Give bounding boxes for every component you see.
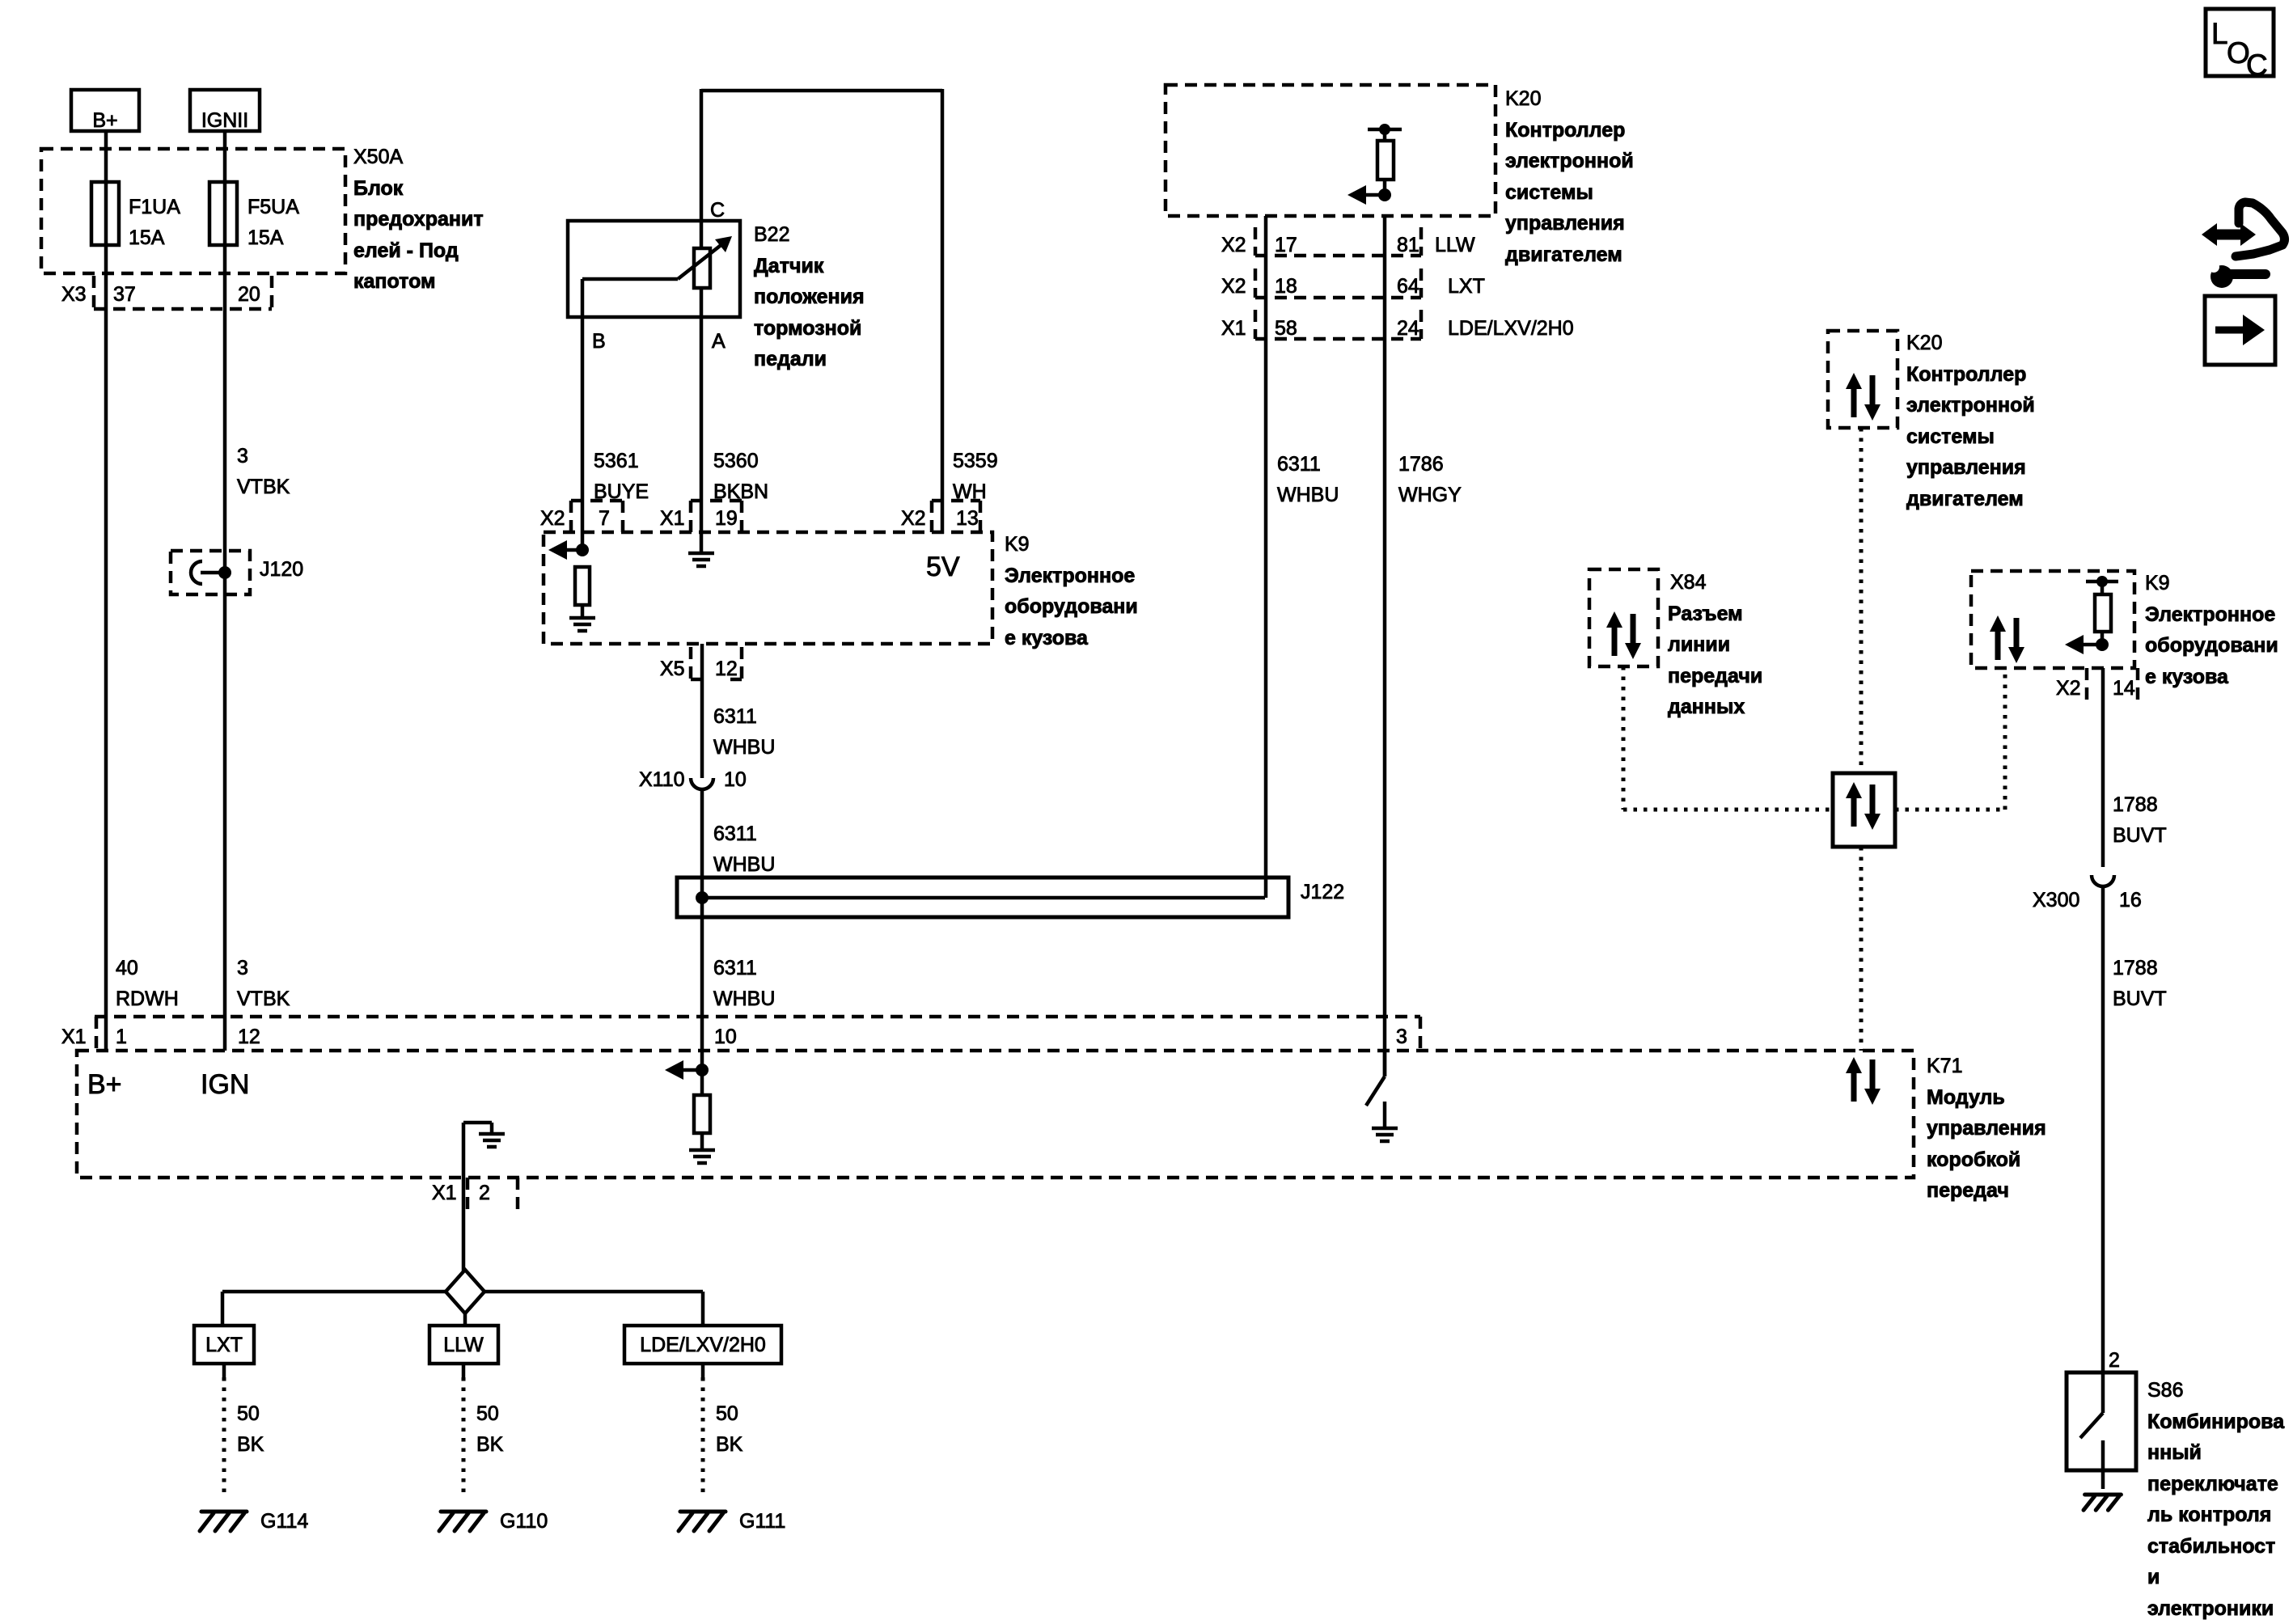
svg-text:7: 7 [599, 507, 610, 530]
svg-text:коробкой: коробкой [1927, 1148, 2020, 1171]
svg-text:5359: 5359 [953, 450, 998, 472]
svg-text:6311: 6311 [713, 823, 757, 845]
svg-text:RDWH: RDWH [116, 988, 179, 1010]
inline connector X110 pin 10 [691, 778, 713, 789]
svg-text:50: 50 [716, 1402, 738, 1425]
data link connector X84 box [1589, 569, 1658, 666]
svg-text:Блок: Блок [353, 177, 404, 200]
ground G111 [679, 1512, 726, 1531]
connector X5 pin 12 [689, 647, 693, 679]
svg-text:F1UA: F1UA [129, 196, 180, 218]
svg-text:WHBU: WHBU [713, 988, 775, 1010]
wire 6311 WHBU K20-J122 [1264, 216, 1268, 898]
svg-text:K9: K9 [1005, 533, 1030, 556]
svg-text:X2: X2 [2056, 677, 2081, 700]
svg-text:C: C [710, 199, 725, 222]
data link wire K20 [1859, 428, 1864, 773]
svg-text:Модуль: Модуль [1927, 1086, 2005, 1109]
splice diamond [446, 1270, 484, 1313]
svg-text:электроники: электроники [2147, 1597, 2274, 1620]
K9 internal resistor [575, 567, 590, 605]
svg-text:передач: передач [1927, 1179, 2009, 1202]
svg-text:VTBK: VTBK [237, 988, 290, 1010]
svg-text:IGN: IGN [201, 1069, 249, 1100]
K20 internal output arrow [1347, 185, 1366, 205]
svg-text:LDE/LXV/2H0: LDE/LXV/2H0 [1448, 317, 1574, 340]
svg-text:64: 64 [1397, 275, 1419, 298]
svg-text:Контроллер: Контроллер [1505, 119, 1625, 142]
K9 internal ground pin7 branch [569, 616, 595, 620]
K71 internal input arrow pin10 [665, 1060, 683, 1080]
K20 internal resistor [1368, 128, 1402, 132]
svg-text:BUVT: BUVT [2113, 824, 2167, 847]
svg-text:A: A [712, 330, 726, 353]
svg-text:X300: X300 [2033, 889, 2079, 911]
K71 internal ground middle [462, 1123, 466, 1178]
svg-text:1788: 1788 [2113, 793, 2158, 816]
K71 connector row [95, 1015, 1420, 1019]
svg-text:BK: BK [476, 1433, 504, 1456]
svg-text:24: 24 [1397, 317, 1419, 340]
svg-text:Электронное: Электронное [2145, 603, 2275, 626]
K9 right internal output arrow [2065, 635, 2084, 654]
svg-text:X2: X2 [901, 507, 926, 530]
wire 1788 BUVT upper [2101, 668, 2105, 867]
svg-text:управления: управления [1505, 212, 1625, 235]
svg-text:6311: 6311 [713, 957, 757, 979]
svg-text:G110: G110 [500, 1510, 548, 1533]
svg-text:K20: K20 [1505, 87, 1541, 110]
svg-text:переключате: переключате [2147, 1473, 2278, 1495]
K71 internal switch pin3 [1383, 1051, 1387, 1076]
svg-text:F5UA: F5UA [247, 196, 299, 218]
svg-text:G111: G111 [739, 1510, 785, 1533]
svg-text:WHBU: WHBU [1277, 484, 1339, 506]
svg-text:WHGY: WHGY [1398, 484, 1462, 506]
wire 6311 WHBU X110-J122 [700, 790, 704, 1070]
net LLW box [429, 1326, 498, 1364]
connector X1 pins 58 24 [1254, 310, 1258, 339]
wire 50 BK LLW [462, 1364, 466, 1377]
svg-text:S86: S86 [2147, 1379, 2183, 1402]
wire 1788 BUVT lower [2101, 886, 2105, 1372]
svg-text:X2: X2 [1221, 275, 1246, 298]
svg-text:15A: 15A [247, 226, 284, 249]
body control module K9 right box [1971, 571, 2134, 668]
svg-text:ль контроля: ль контроля [2147, 1503, 2271, 1526]
svg-text:X50A: X50A [353, 146, 403, 168]
svg-text:X1: X1 [660, 507, 685, 530]
K9 right internal resistor [2086, 580, 2118, 584]
engine controller K20 data link box [1828, 331, 1897, 428]
data link wire to K9 [1895, 808, 2005, 812]
svg-text:е кузова: е кузова [2145, 666, 2229, 688]
forward reference arrow box [2205, 296, 2275, 365]
svg-text:LDE/LXV/2H0: LDE/LXV/2H0 [640, 1334, 766, 1356]
ground G114 [200, 1512, 247, 1531]
wire 6311 WHBU K9-X110 [700, 644, 704, 778]
K71 internal resistor pin10 [694, 1095, 710, 1133]
svg-text:двигателем: двигателем [1505, 243, 1622, 266]
svg-text:VTBK: VTBK [237, 476, 290, 498]
svg-text:6311: 6311 [713, 705, 757, 728]
splice J120 [171, 551, 250, 594]
svg-text:K71: K71 [1927, 1055, 1962, 1077]
power feed IGNII box [190, 90, 260, 131]
svg-text:58: 58 [1275, 317, 1297, 340]
svg-text:данных: данных [1668, 696, 1745, 718]
scan tool icon [2236, 202, 2285, 256]
svg-text:оборудовани: оборудовани [2145, 634, 2278, 657]
svg-text:нный: нный [2147, 1441, 2202, 1464]
svg-text:3: 3 [237, 445, 248, 467]
svg-text:LLW: LLW [1435, 234, 1475, 256]
svg-text:X1: X1 [61, 1026, 87, 1048]
wire C segment [700, 89, 704, 248]
svg-text:электронной: электронной [1906, 394, 2035, 417]
wire B+ feed [104, 131, 108, 1051]
svg-text:15A: 15A [129, 226, 165, 249]
svg-text:37: 37 [113, 283, 136, 306]
brake pedal position sensor B22 box [568, 221, 740, 317]
svg-text:X2: X2 [540, 507, 565, 530]
svg-text:13: 13 [956, 507, 979, 530]
svg-text:B+: B+ [92, 109, 117, 132]
svg-text:X1: X1 [432, 1182, 457, 1204]
S86 switch contacts [2101, 1372, 2105, 1413]
svg-text:1786: 1786 [1398, 453, 1444, 476]
svg-text:1: 1 [116, 1026, 127, 1048]
svg-text:5361: 5361 [594, 450, 639, 472]
svg-text:J122: J122 [1301, 881, 1344, 903]
svg-text:12: 12 [238, 1026, 260, 1048]
svg-text:передачи: передачи [1668, 665, 1762, 687]
svg-text:17: 17 [1275, 234, 1297, 256]
svg-text:WHBU: WHBU [713, 853, 775, 876]
svg-text:электронной: электронной [1505, 150, 1634, 172]
svg-text:6311: 6311 [1277, 453, 1321, 476]
svg-text:управления: управления [1927, 1117, 2046, 1140]
svg-text:управления: управления [1906, 456, 2026, 479]
svg-text:L: L [2211, 17, 2228, 50]
svg-text:LXT: LXT [205, 1334, 243, 1356]
ground wire to splice [462, 1178, 466, 1272]
svg-text:81: 81 [1397, 234, 1419, 256]
svg-text:Датчик: Датчик [754, 255, 824, 277]
wire 5360 BKBN [700, 288, 704, 552]
svg-text:предохранит: предохранит [353, 208, 484, 230]
splice J122 [677, 878, 1288, 917]
fuse block X50A box [41, 149, 345, 273]
svg-text:2: 2 [2109, 1349, 2120, 1372]
svg-text:J120: J120 [260, 558, 303, 581]
inline connector X300 pin 16 [2092, 875, 2114, 886]
stability control switch S86 box [2067, 1372, 2136, 1470]
svg-text:системы: системы [1505, 181, 1593, 204]
svg-text:10: 10 [724, 768, 747, 791]
K9 internal output arrow [548, 540, 567, 560]
connector X2 pins 17 81 [1254, 227, 1258, 256]
svg-text:B: B [592, 330, 606, 353]
connector X1 pin 19 [691, 499, 742, 503]
svg-text:X3: X3 [61, 283, 87, 306]
svg-text:капотом: капотом [353, 270, 436, 293]
svg-text:5V: 5V [926, 552, 960, 582]
S86 ground wire [2101, 1470, 2105, 1489]
svg-text:5360: 5360 [713, 450, 759, 472]
svg-text:Разъем: Разъем [1668, 603, 1743, 625]
body control module K9 box [544, 532, 992, 644]
data link wire to K71 [1859, 847, 1864, 1051]
svg-text:12: 12 [715, 658, 738, 680]
svg-text:Электронное: Электронное [1005, 565, 1135, 587]
engine controller K20 box [1166, 85, 1496, 216]
svg-text:стабильност: стабильност [2147, 1535, 2275, 1558]
svg-text:IGNII: IGNII [201, 109, 248, 132]
K71 internal ground pin10 [689, 1148, 715, 1152]
B22 potentiometer track [694, 248, 710, 288]
svg-text:LXT: LXT [1448, 275, 1485, 298]
wire IGNII feed [223, 131, 227, 1051]
svg-text:50: 50 [476, 1402, 499, 1425]
svg-text:LLW: LLW [443, 1334, 484, 1356]
svg-text:18: 18 [1275, 275, 1297, 298]
svg-text:G114: G114 [260, 1510, 308, 1533]
LOC reference box [2206, 9, 2274, 76]
svg-text:WHBU: WHBU [713, 736, 775, 759]
svg-text:X110: X110 [639, 768, 685, 791]
svg-text:Комбинирова: Комбинирова [2147, 1410, 2285, 1433]
data link wire X84 [1622, 666, 1626, 810]
ground G110 [439, 1512, 486, 1531]
power feed B+ box [71, 90, 139, 131]
svg-text:BUVT: BUVT [2113, 988, 2167, 1010]
svg-text:елей - Под: елей - Под [353, 239, 459, 262]
B22 wiper arrow [582, 277, 678, 281]
wire 5361 BUYE [581, 279, 585, 550]
ground below S86 [2084, 1495, 2121, 1510]
svg-text:тормозной: тормозной [754, 317, 861, 340]
connector X3 pins 37 20 [94, 307, 272, 311]
fuse F1UA 15A [91, 182, 119, 245]
svg-text:K20: K20 [1906, 332, 1942, 354]
svg-text:системы: системы [1906, 425, 1995, 448]
svg-text:40: 40 [116, 957, 138, 979]
wire 5359 WH top loop [701, 89, 942, 93]
svg-text:X84: X84 [1670, 571, 1707, 594]
svg-text:е кузова: е кузова [1005, 627, 1089, 649]
svg-text:3: 3 [1396, 1026, 1407, 1048]
K71 internal ground pin3 [1372, 1127, 1398, 1131]
connector X2 pin 7 [571, 499, 623, 503]
svg-text:линии: линии [1668, 633, 1730, 656]
svg-text:X2: X2 [1221, 234, 1246, 256]
K9 internal ground pin19 [700, 552, 704, 553]
svg-text:20: 20 [238, 283, 260, 306]
svg-text:X1: X1 [1221, 317, 1246, 340]
data link junction box [1833, 773, 1895, 847]
svg-text:BK: BK [237, 1433, 264, 1456]
svg-text:14: 14 [2113, 677, 2135, 700]
svg-text:19: 19 [715, 507, 738, 530]
svg-text:B+: B+ [87, 1069, 122, 1100]
svg-text:и: и [2147, 1566, 2160, 1588]
connector X2 pin 13 [932, 499, 980, 503]
connector X1 pin 2 [466, 1178, 470, 1210]
svg-text:50: 50 [237, 1402, 260, 1425]
svg-text:педали: педали [754, 348, 827, 370]
svg-text:X5: X5 [660, 658, 685, 680]
svg-text:C: C [2246, 49, 2268, 82]
svg-text:16: 16 [2119, 889, 2142, 911]
connector X2 pin 14 [2085, 668, 2089, 702]
svg-text:Контроллер: Контроллер [1906, 363, 2026, 386]
svg-text:10: 10 [714, 1026, 737, 1048]
K71 data link arrows [1851, 1070, 1857, 1102]
net LDE/LXV/2H0 box [624, 1326, 781, 1364]
wire 50 BK LDE [701, 1364, 705, 1377]
net LXT box [194, 1326, 254, 1364]
svg-text:двигателем: двигателем [1906, 488, 2024, 510]
connector X2 pins 18 64 [1254, 269, 1258, 298]
svg-text:3: 3 [237, 957, 248, 979]
transmission control module K71 box [77, 1051, 1914, 1178]
svg-text:положения: положения [754, 285, 865, 308]
svg-text:1788: 1788 [2113, 957, 2158, 979]
fuse F5UA 15A [209, 182, 237, 245]
svg-text:оборудовани: оборудовани [1005, 595, 1138, 618]
svg-text:2: 2 [479, 1182, 490, 1204]
svg-text:B22: B22 [754, 223, 789, 246]
svg-text:K9: K9 [2145, 572, 2170, 594]
wire 1786 WHGY [1383, 216, 1387, 1076]
svg-text:BK: BK [716, 1433, 743, 1456]
wire 50 BK LXT [222, 1364, 226, 1377]
